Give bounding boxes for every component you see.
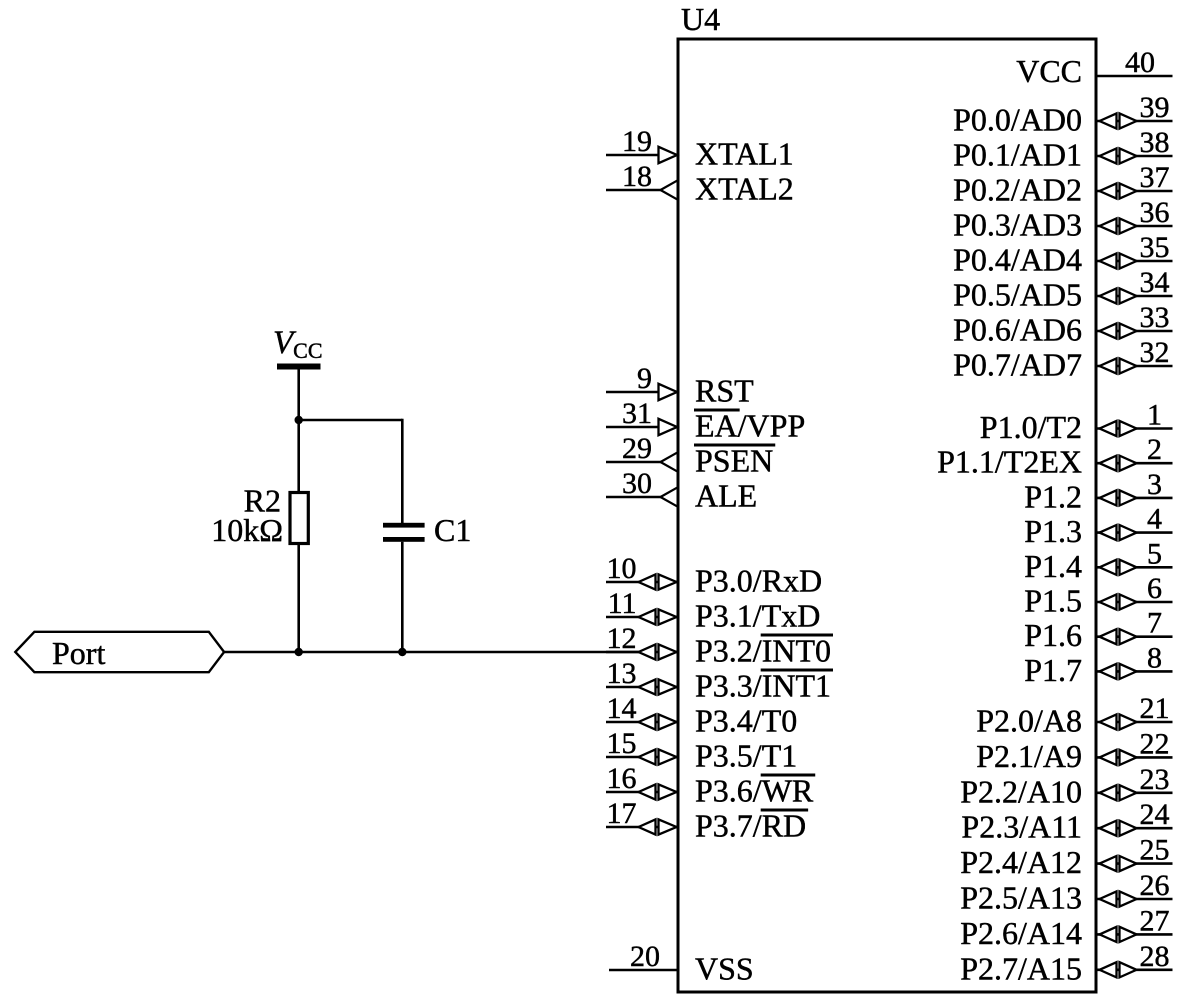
wire from resistor R2 to node B <box>297 544 300 654</box>
pin 4 bidirectional arrow <box>1100 525 1117 540</box>
pin 24 bidirectional arrow <box>1100 821 1117 836</box>
pin 3 wire <box>1097 497 1173 500</box>
pin 23 wire <box>1097 791 1173 794</box>
svg-text:P1.6: P1.6 <box>1024 617 1082 653</box>
pin 18 wire <box>606 189 661 192</box>
overline over PSEN <box>694 444 775 447</box>
svg-text:P1.7: P1.7 <box>1024 652 1082 688</box>
pin 39 bidirectional arrow <box>1100 113 1117 128</box>
svg-text:P3.3/INT1: P3.3/INT1 <box>695 668 831 704</box>
pin 36 wire <box>1097 225 1173 228</box>
svg-text:P0.3/AD3: P0.3/AD3 <box>953 207 1082 243</box>
svg-text:21: 21 <box>1140 692 1170 725</box>
pin 17 wire <box>606 826 677 829</box>
svg-text:13: 13 <box>607 657 637 690</box>
pin 3 bidirectional arrow <box>1100 490 1117 505</box>
pin 17 bidirectional arrow <box>639 819 656 834</box>
pin 28 wire <box>1097 968 1173 971</box>
overline over EA <box>694 409 740 412</box>
pin 23 bidirectional arrow <box>1100 785 1117 800</box>
connector Port (net tag) <box>15 632 224 672</box>
pin 31 wire <box>606 426 659 429</box>
svg-text:RST: RST <box>695 373 754 409</box>
pin 37 bidirectional arrow <box>1100 183 1117 198</box>
svg-text:24: 24 <box>1140 798 1170 831</box>
pin 34 wire <box>1097 295 1173 298</box>
pin 6 wire <box>1097 601 1173 604</box>
pin 21 bidirectional arrow <box>1100 714 1117 729</box>
svg-text:P2.0/A8: P2.0/A8 <box>976 703 1082 739</box>
pin 14 bidirectional arrow <box>639 714 656 729</box>
pin 9 input arrow <box>659 384 678 400</box>
pin 30 wire <box>606 496 661 499</box>
svg-text:VCC: VCC <box>273 325 323 363</box>
svg-text:15: 15 <box>607 727 637 760</box>
pin 27 wire <box>1097 933 1173 936</box>
svg-text:30: 30 <box>622 467 652 500</box>
svg-text:3: 3 <box>1147 468 1162 501</box>
svg-text:P0.2/AD2: P0.2/AD2 <box>953 172 1082 208</box>
svg-text:37: 37 <box>1140 161 1170 194</box>
svg-text:10: 10 <box>607 552 637 585</box>
svg-text:19: 19 <box>622 125 652 158</box>
svg-text:P2.5/A13: P2.5/A13 <box>960 880 1082 916</box>
wire from node A to resistor R2 <box>297 420 300 494</box>
svg-text:14: 14 <box>607 692 637 725</box>
svg-text:6: 6 <box>1147 572 1162 605</box>
pin 32 wire <box>1097 365 1173 368</box>
pin 28 bidirectional arrow <box>1100 962 1117 977</box>
pin 7 bidirectional arrow <box>1100 629 1117 644</box>
svg-text:40: 40 <box>1125 46 1155 79</box>
pin 2 wire <box>1097 462 1173 465</box>
pin 21 wire <box>1097 721 1173 724</box>
pin 10 wire <box>606 581 677 584</box>
pin 18 output arrow <box>661 181 678 190</box>
svg-text:C1: C1 <box>434 512 471 548</box>
svg-text:12: 12 <box>607 622 637 655</box>
svg-text:VSS: VSS <box>695 951 754 987</box>
svg-text:P1.1/T2EX: P1.1/T2EX <box>937 444 1082 480</box>
pin 33 bidirectional arrow <box>1100 323 1117 338</box>
svg-text:7: 7 <box>1147 607 1162 640</box>
pin 5 bidirectional arrow <box>1100 560 1117 575</box>
svg-text:28: 28 <box>1140 940 1170 973</box>
svg-text:11: 11 <box>608 587 637 620</box>
pin 12 wire <box>606 651 677 654</box>
svg-text:P0.4/AD4: P0.4/AD4 <box>953 242 1082 278</box>
pin 38 wire <box>1097 155 1173 158</box>
svg-text:P2.2/A10: P2.2/A10 <box>960 773 1082 809</box>
overline over WR <box>761 774 816 777</box>
pin 19 wire <box>606 154 659 157</box>
svg-text:PSEN: PSEN <box>695 443 773 479</box>
svg-text:EA/VPP: EA/VPP <box>695 408 805 444</box>
svg-text:18: 18 <box>622 160 652 193</box>
overline over INT0 <box>761 634 833 637</box>
svg-text:36: 36 <box>1140 196 1170 229</box>
pin 14 wire <box>606 721 677 724</box>
svg-text:31: 31 <box>622 397 652 430</box>
pin 12 bidirectional arrow <box>639 644 656 659</box>
svg-text:38: 38 <box>1140 126 1170 159</box>
pin 22 bidirectional arrow <box>1100 750 1117 765</box>
pin 25 wire <box>1097 862 1173 865</box>
svg-text:P3.1/TxD: P3.1/TxD <box>695 598 820 634</box>
svg-text:XTAL1: XTAL1 <box>695 136 794 172</box>
svg-text:VCC: VCC <box>1016 53 1082 89</box>
svg-text:9: 9 <box>637 362 652 395</box>
svg-text:P1.3: P1.3 <box>1024 513 1082 549</box>
resistor R2 body <box>290 493 308 544</box>
svg-text:P3.4/T0: P3.4/T0 <box>695 703 797 739</box>
svg-text:35: 35 <box>1140 231 1170 264</box>
wire from branch corner down to capacitor C1 <box>401 419 404 524</box>
node C junction dot (C1 to Port wire) <box>398 648 406 656</box>
pin 39 wire <box>1097 120 1173 123</box>
pin 16 bidirectional arrow <box>639 784 656 799</box>
pin 8 bidirectional arrow <box>1100 664 1117 679</box>
svg-text:P0.7/AD7: P0.7/AD7 <box>953 347 1082 383</box>
svg-text:34: 34 <box>1140 266 1170 299</box>
pin 30 output arrow <box>661 488 678 497</box>
pin 20 wire <box>609 969 677 972</box>
svg-text:XTAL2: XTAL2 <box>695 171 794 207</box>
wire from VCC bar to node A <box>297 370 300 422</box>
pin 24 wire <box>1097 827 1173 830</box>
pin 26 wire <box>1097 898 1173 901</box>
svg-text:23: 23 <box>1140 763 1170 796</box>
svg-text:P1.4: P1.4 <box>1024 548 1082 584</box>
node B junction dot (R2 to Port wire) <box>295 648 303 656</box>
capacitor C1 bottom plate <box>383 537 425 542</box>
svg-text:39: 39 <box>1140 91 1170 124</box>
svg-text:P0.6/AD6: P0.6/AD6 <box>953 312 1082 348</box>
svg-text:U4: U4 <box>681 1 720 37</box>
svg-text:27: 27 <box>1140 904 1170 937</box>
svg-text:26: 26 <box>1140 869 1170 902</box>
svg-text:P2.7/A15: P2.7/A15 <box>960 950 1082 986</box>
pin 6 bidirectional arrow <box>1100 594 1117 609</box>
capacitor C1 top plate <box>383 523 425 528</box>
pin 9 wire <box>606 391 659 394</box>
IC U4 body (80C51 microcontroller outline) <box>678 39 1096 992</box>
pin 35 bidirectional arrow <box>1100 253 1117 268</box>
svg-text:P3.7/RD: P3.7/RD <box>695 808 806 844</box>
svg-text:P2.4/A12: P2.4/A12 <box>960 844 1082 880</box>
pin 34 bidirectional arrow <box>1100 288 1117 303</box>
svg-text:8: 8 <box>1147 641 1162 674</box>
svg-text:P0.5/AD5: P0.5/AD5 <box>953 277 1082 313</box>
pin 27 bidirectional arrow <box>1100 927 1117 942</box>
wire from Port to pin 12 (net Port) <box>224 651 638 654</box>
pin 38 bidirectional arrow <box>1100 148 1117 163</box>
pin 2 bidirectional arrow <box>1100 456 1117 471</box>
power symbol VCC (bar) <box>277 364 321 370</box>
svg-text:P2.3/A11: P2.3/A11 <box>961 809 1082 845</box>
pin 40 wire <box>1097 75 1173 78</box>
wire from node A to capacitor branch <box>297 419 402 422</box>
svg-text:4: 4 <box>1147 503 1162 536</box>
pin 35 wire <box>1097 260 1173 263</box>
svg-text:P1.2: P1.2 <box>1024 478 1082 514</box>
pin 11 wire <box>606 616 677 619</box>
svg-text:5: 5 <box>1147 537 1162 570</box>
pin 15 bidirectional arrow <box>639 749 656 764</box>
svg-text:P2.6/A14: P2.6/A14 <box>960 915 1082 951</box>
svg-text:P3.6/WR: P3.6/WR <box>695 773 814 809</box>
svg-text:P2.1/A9: P2.1/A9 <box>976 738 1082 774</box>
pin 32 bidirectional arrow <box>1100 358 1117 373</box>
overline over RD <box>761 809 808 812</box>
svg-text:25: 25 <box>1140 834 1170 867</box>
svg-text:P1.0/T2: P1.0/T2 <box>980 409 1082 445</box>
wire from capacitor C1 to node C <box>401 542 404 654</box>
pin 8 wire <box>1097 670 1173 673</box>
svg-text:22: 22 <box>1140 727 1170 760</box>
svg-text:ALE: ALE <box>695 478 757 514</box>
pin 13 bidirectional arrow <box>639 679 656 694</box>
svg-text:10kΩ: 10kΩ <box>211 512 283 548</box>
svg-text:P0.1/AD1: P0.1/AD1 <box>953 137 1082 173</box>
pin 15 wire <box>606 756 677 759</box>
svg-text:20: 20 <box>630 940 660 973</box>
pin 4 wire <box>1097 531 1173 534</box>
svg-text:P3.2/INT0: P3.2/INT0 <box>695 633 831 669</box>
svg-text:17: 17 <box>607 797 637 830</box>
svg-text:33: 33 <box>1140 301 1170 334</box>
pin 19 input arrow <box>659 147 678 163</box>
svg-text:P1.5: P1.5 <box>1024 583 1082 619</box>
svg-text:2: 2 <box>1147 433 1162 466</box>
svg-text:P0.0/AD0: P0.0/AD0 <box>953 102 1082 138</box>
pin 7 wire <box>1097 635 1173 638</box>
pin 11 bidirectional arrow <box>639 609 656 624</box>
node A junction dot <box>295 416 303 424</box>
pin 22 wire <box>1097 756 1173 759</box>
pin 37 wire <box>1097 190 1173 193</box>
svg-text:29: 29 <box>622 432 652 465</box>
pin 13 wire <box>606 686 677 689</box>
svg-text:P3.0/RxD: P3.0/RxD <box>695 563 822 599</box>
pin 10 bidirectional arrow <box>639 574 656 589</box>
svg-text:32: 32 <box>1140 336 1170 369</box>
pin 16 wire <box>606 791 677 794</box>
overline over INT1 <box>761 669 833 672</box>
pin 36 bidirectional arrow <box>1100 218 1117 233</box>
svg-text:1: 1 <box>1147 399 1162 432</box>
pin 31 input arrow <box>659 419 678 435</box>
svg-text:16: 16 <box>607 762 637 795</box>
pin 29 output arrow <box>661 453 678 462</box>
svg-text:P3.5/T1: P3.5/T1 <box>695 738 797 774</box>
pin 25 bidirectional arrow <box>1100 856 1117 871</box>
pin 1 bidirectional arrow <box>1100 421 1117 436</box>
pin 26 bidirectional arrow <box>1100 891 1117 906</box>
pin 1 wire <box>1097 427 1173 430</box>
pin 29 wire <box>606 461 661 464</box>
pin 5 wire <box>1097 566 1173 569</box>
svg-text:Port: Port <box>52 635 105 671</box>
pin 33 wire <box>1097 330 1173 333</box>
